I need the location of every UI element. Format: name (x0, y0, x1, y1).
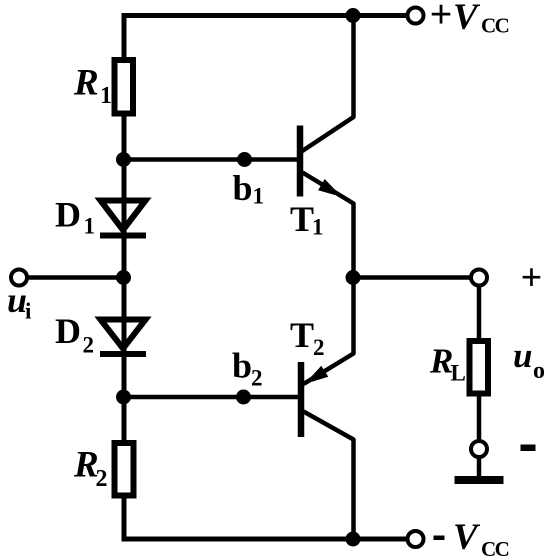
svg-text:R: R (73, 63, 99, 104)
svg-text:CC: CC (481, 537, 509, 560)
svg-text:1: 1 (253, 184, 265, 209)
svg-text:o: o (533, 358, 545, 384)
svg-text:V: V (453, 517, 481, 558)
svg-text:+: + (521, 257, 543, 299)
svg-text:b: b (232, 346, 252, 386)
svg-text:T: T (290, 315, 314, 355)
svg-text:L: L (451, 361, 466, 386)
svg-text:V: V (453, 0, 481, 38)
svg-text:2: 2 (313, 335, 325, 360)
svg-text:D: D (55, 311, 81, 351)
svg-text:+: + (430, 0, 453, 37)
svg-text:1: 1 (312, 215, 324, 240)
svg-text:i: i (25, 299, 32, 324)
svg-text:D: D (55, 195, 81, 235)
svg-text:2: 2 (251, 366, 263, 391)
svg-text:T: T (290, 199, 314, 239)
svg-text:2: 2 (83, 333, 95, 358)
svg-text:1: 1 (84, 214, 96, 239)
svg-text:2: 2 (96, 466, 108, 492)
svg-text:CC: CC (481, 14, 509, 38)
svg-text:1: 1 (100, 83, 112, 109)
svg-text:b: b (233, 168, 253, 208)
svg-text:u: u (513, 336, 532, 375)
